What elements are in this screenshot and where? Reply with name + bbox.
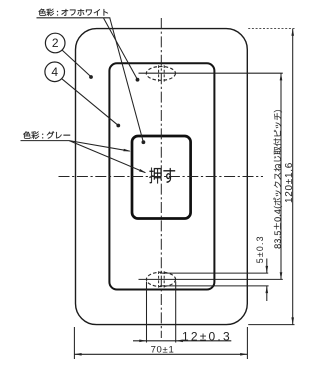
leader balloon 2 [62,50,91,77]
dimension line 120±1.6 [292,29,294,325]
horizontal centerline [59,176,264,178]
vertical centerline [160,18,162,338]
slot bottom tangent extension [160,285,269,287]
bottom screw hole centerline extension [139,278,283,280]
plate right edge extension [246,327,248,359]
top screw slot [159,65,165,81]
svg-text:5±0.3: 5±0.3 [255,235,265,263]
slot top tangent extension [160,272,268,274]
plate outline [76,29,248,325]
svg-text:4: 4 [51,65,58,79]
leader to plate surface near top screw [104,18,138,79]
leader to button top surface [110,18,144,142]
svg-text:12±0.3: 12±0.3 [182,330,232,344]
dimension line 83.5 [280,73,282,279]
dimension line 70±1 [74,353,247,355]
label 色彩:グレー [23,131,70,139]
top screw hole [146,67,175,81]
slot left extension [146,282,148,343]
label 色彩:オフホワイト [39,9,109,16]
balloon 4 [45,62,65,82]
button label 押す [149,168,175,184]
leader balloon 4 [62,79,118,126]
dimension line 12±0.3 [133,340,231,342]
dimension line 5±0.3 [266,259,268,274]
leader arrow to button left edge [69,141,130,152]
bottom screw hole [146,272,175,286]
top screw hole centerline extension [139,72,283,74]
balloon 2 [45,33,65,53]
plate bottom edge extension [248,324,294,326]
bottom screw slot [159,271,165,287]
plate top edge extension [248,28,294,30]
mounting frame [109,63,214,289]
slot right extension [175,282,177,343]
leader arrow to button face [69,141,145,173]
svg-text:2: 2 [52,36,59,50]
svg-text:70±1: 70±1 [151,344,175,355]
svg-text:120±1.6: 120±1.6 [284,162,295,203]
plate left edge extension [73,327,75,359]
push button [132,136,191,219]
dimension text 83.5±0.4 (box screw mounting pitch) [273,110,282,248]
